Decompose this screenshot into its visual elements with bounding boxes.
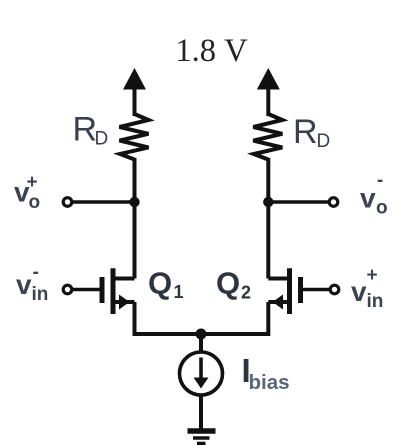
wire vin+ gate lead <box>303 288 332 292</box>
svg-text:D: D <box>95 129 109 150</box>
resistor RD left <box>120 114 149 160</box>
label RD left <box>73 111 109 150</box>
terminal vin+ <box>330 285 339 294</box>
current source Ibias <box>180 352 223 395</box>
wire left output <box>71 200 135 204</box>
svg-text:v: v <box>351 276 367 307</box>
svg-text:1.8 V: 1.8 V <box>175 33 248 69</box>
svg-text:R: R <box>293 113 318 151</box>
svg-text:Q: Q <box>148 266 172 301</box>
node left output junction <box>129 197 139 207</box>
svg-text:o: o <box>29 192 41 213</box>
wire vin- gate lead <box>71 288 100 292</box>
svg-text:+: + <box>27 172 38 193</box>
wire right output <box>268 200 330 204</box>
svg-text:v: v <box>16 269 32 300</box>
ground <box>188 431 216 444</box>
label Q1 <box>148 266 184 303</box>
svg-text:D: D <box>317 131 331 152</box>
svg-text:R: R <box>73 111 98 149</box>
VDD arrow left <box>123 68 146 116</box>
transistor Q1 <box>102 268 135 314</box>
label vo- <box>360 170 388 219</box>
svg-text:1: 1 <box>174 282 184 302</box>
label vo+ <box>14 172 40 213</box>
transistor Q2 <box>268 268 300 314</box>
svg-text:in: in <box>32 284 49 305</box>
svg-text:-: - <box>377 170 383 191</box>
wire right drain rail <box>266 158 270 279</box>
resistor RD right <box>253 114 282 160</box>
label Ibias <box>242 352 290 394</box>
wire left drain rail <box>133 158 137 279</box>
wire tail to current source <box>199 334 203 353</box>
node tail junction <box>196 329 207 340</box>
svg-text:in: in <box>367 291 384 312</box>
svg-text:+: + <box>367 265 378 286</box>
svg-text:2: 2 <box>241 283 251 303</box>
label RD right <box>293 113 330 152</box>
svg-text:Q: Q <box>216 266 240 301</box>
svg-text:o: o <box>376 198 388 219</box>
label vin+ <box>351 265 383 312</box>
VDD arrow right <box>257 68 280 116</box>
wire tail (sources to common node) <box>135 302 269 334</box>
node right output junction <box>263 197 273 207</box>
svg-text:bias: bias <box>249 371 290 394</box>
terminal vo- <box>329 198 338 207</box>
terminal vo+ <box>63 198 72 207</box>
svg-text:v: v <box>360 183 376 214</box>
terminal vin- <box>63 285 72 294</box>
svg-text:-: - <box>33 262 39 283</box>
label vin- <box>16 262 48 305</box>
wire current source to ground <box>199 395 203 429</box>
label Q2 <box>216 266 251 303</box>
